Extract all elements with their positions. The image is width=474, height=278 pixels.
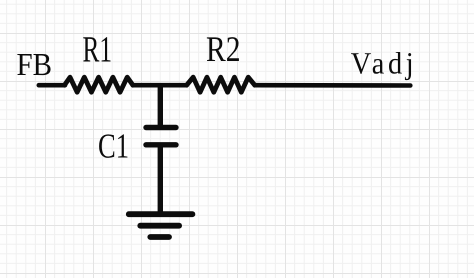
svg-text:R2: R2 bbox=[206, 29, 241, 69]
wire R2 to Vadj bbox=[255, 83, 410, 88]
resistor R2 bbox=[187, 77, 255, 92]
ground bbox=[129, 214, 193, 237]
wire junction to C1 bbox=[158, 84, 163, 125]
svg-text:R1: R1 bbox=[83, 29, 113, 70]
svg-text:C1: C1 bbox=[98, 126, 129, 165]
wire C1 to ground bbox=[158, 146, 163, 213]
wire R1 to R2 (junction segment) bbox=[133, 83, 187, 88]
svg-text:FB: FB bbox=[17, 46, 53, 82]
svg-text:Vadj: Vadj bbox=[351, 46, 418, 81]
wire FB lead bbox=[39, 83, 65, 88]
resistor R1 bbox=[64, 77, 132, 92]
capacitor C1 bbox=[146, 128, 176, 145]
